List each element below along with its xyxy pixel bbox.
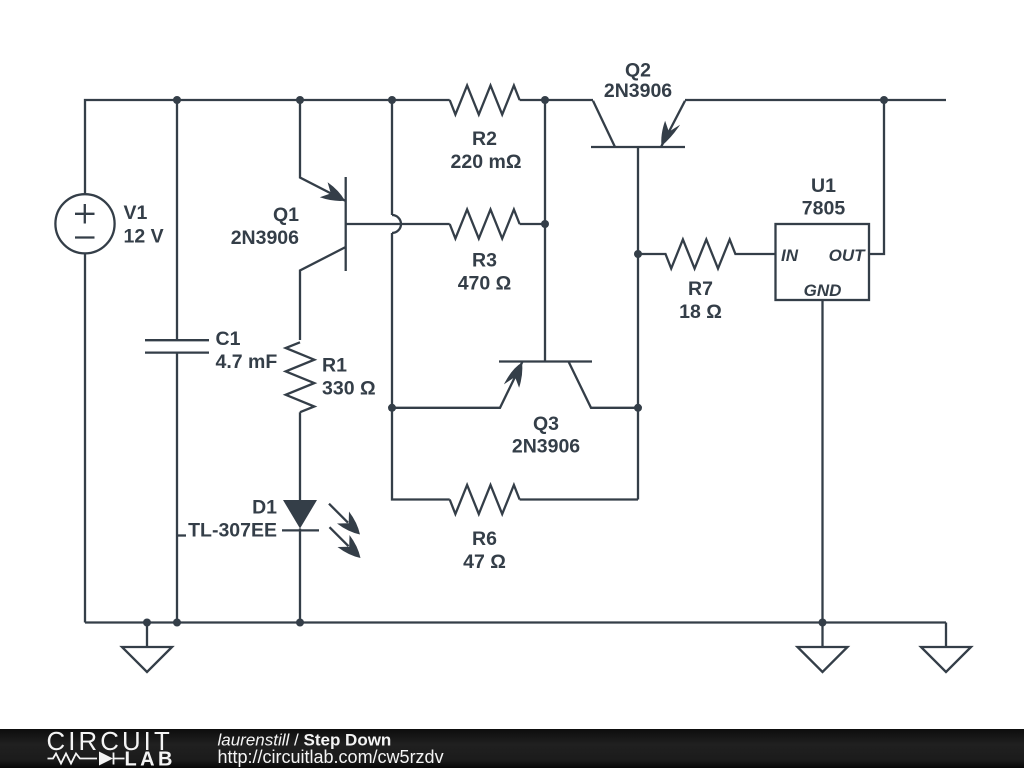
svg-text:C1: C1 bbox=[216, 328, 241, 350]
transistor Q2 2N3906 bbox=[591, 101, 685, 147]
junction D1 bottom bbox=[296, 619, 304, 627]
label R1 330 ohm bbox=[322, 355, 376, 400]
svg-text:18 Ω: 18 Ω bbox=[679, 301, 722, 323]
CircuitLab logo resistor-diode glyph bbox=[48, 753, 125, 765]
bottom rail bbox=[85, 621, 946, 623]
svg-text:330 Ω: 330 Ω bbox=[322, 378, 376, 400]
label R6 47 ohm bbox=[463, 528, 506, 573]
IC U1 7805 bbox=[776, 224, 870, 300]
junction Q3 collector node bbox=[634, 404, 642, 412]
svg-text:47 Ω: 47 Ω bbox=[463, 551, 506, 573]
svg-text:Q3: Q3 bbox=[533, 413, 559, 435]
svg-text:OUT: OUT bbox=[829, 246, 867, 265]
svg-text:R3: R3 bbox=[472, 250, 497, 272]
junction U1 GND bottom bbox=[819, 619, 827, 627]
svg-text:Q1: Q1 bbox=[273, 204, 299, 226]
wire V1 top to top rail bbox=[85, 100, 177, 194]
svg-text:2N3906: 2N3906 bbox=[512, 436, 580, 458]
junction x392 Q3 emitter bbox=[388, 404, 396, 412]
junction top rail vertical node bbox=[388, 96, 396, 104]
resistor R3 470 ohm bbox=[450, 210, 545, 239]
voltage source V1 bbox=[55, 194, 114, 253]
junction C1 bottom bbox=[173, 619, 181, 627]
wire vertical node x392 upper with hop over Q1 base bbox=[392, 100, 401, 408]
label Q1 2N3906 bbox=[231, 204, 299, 249]
capacitor C1 bbox=[145, 100, 209, 623]
ground symbol 1 bbox=[122, 623, 172, 673]
junction top rail C1 bbox=[173, 96, 181, 104]
svg-text:LAB: LAB bbox=[125, 749, 176, 768]
ground symbol 2 bbox=[798, 623, 848, 673]
wire node x545 vertical to Q3 base bbox=[544, 100, 546, 361]
junction top rail Q1 emitter bbox=[296, 96, 304, 104]
svg-text:2N3906: 2N3906 bbox=[231, 227, 299, 249]
CircuitLab logo diode triangle bbox=[99, 752, 113, 766]
LED arrow 1 bbox=[329, 504, 360, 535]
LED arrow 2 bbox=[330, 527, 361, 558]
svg-text:GND: GND bbox=[804, 281, 842, 300]
junction R2 right / R3 node bbox=[541, 96, 549, 104]
ground symbol 3 bbox=[921, 623, 971, 673]
label R3 470 ohm bbox=[458, 250, 512, 295]
wire U1 GND down bbox=[821, 300, 823, 623]
wire Q1 base to R3 bbox=[346, 223, 450, 225]
svg-text:IN: IN bbox=[781, 246, 799, 265]
label Q3 2N3906 bbox=[512, 413, 580, 458]
junction R3 right bbox=[541, 220, 549, 228]
wire x392 down to R6 bbox=[392, 408, 450, 500]
wire V1 bottom to bottom rail bbox=[84, 253, 86, 622]
label V1 12 V bbox=[124, 202, 164, 248]
resistor R7 18 ohm bbox=[638, 240, 776, 269]
svg-text:R2: R2 bbox=[472, 128, 497, 150]
resistor R6 47 ohm bbox=[450, 485, 638, 514]
junction R7 node bbox=[634, 250, 642, 258]
svg-text:R6: R6 bbox=[472, 528, 497, 550]
label Q2 2N3906 bbox=[604, 60, 672, 103]
wire top rail right bbox=[685, 99, 946, 101]
svg-text:U1: U1 bbox=[811, 175, 836, 197]
svg-text:4.7 mF: 4.7 mF bbox=[216, 351, 278, 373]
svg-text:7805: 7805 bbox=[802, 198, 846, 220]
resistor R1 bbox=[286, 342, 315, 500]
label C1 4.7 mF bbox=[216, 328, 278, 373]
svg-text:2N3906: 2N3906 bbox=[604, 80, 672, 102]
label D1 TL-307EE bbox=[177, 497, 277, 542]
transistor Q3 2N3906 bbox=[392, 362, 638, 408]
svg-text:R7: R7 bbox=[688, 278, 713, 300]
label R2 220 mohm bbox=[451, 128, 522, 173]
svg-text:http://circuitlab.com/cw5rzdv: http://circuitlab.com/cw5rzdv bbox=[218, 747, 444, 767]
wire Q2 base vertical x638 bbox=[637, 147, 639, 500]
svg-text:220 mΩ: 220 mΩ bbox=[451, 151, 522, 173]
label U1 7805 bbox=[802, 175, 846, 220]
svg-text:470 Ω: 470 Ω bbox=[458, 273, 512, 295]
label R7 18 ohm bbox=[679, 278, 722, 323]
svg-text:D1: D1 bbox=[252, 497, 277, 519]
svg-text:TL-307EE: TL-307EE bbox=[188, 520, 277, 542]
svg-text:12 V: 12 V bbox=[124, 226, 164, 248]
resistor R2 220 mohm bbox=[450, 86, 593, 115]
svg-text:R1: R1 bbox=[322, 355, 347, 377]
svg-text:Q2: Q2 bbox=[625, 60, 651, 82]
transistor Q1 2N3906 bbox=[300, 100, 346, 340]
junction ground 1 bbox=[143, 619, 151, 627]
junction OUT node bbox=[880, 96, 888, 104]
svg-text:V1: V1 bbox=[124, 202, 148, 224]
wire U1 OUT to top rail bbox=[869, 100, 884, 254]
diode D1 LED bbox=[282, 500, 319, 623]
wire top rail to R2 bbox=[177, 99, 450, 101]
